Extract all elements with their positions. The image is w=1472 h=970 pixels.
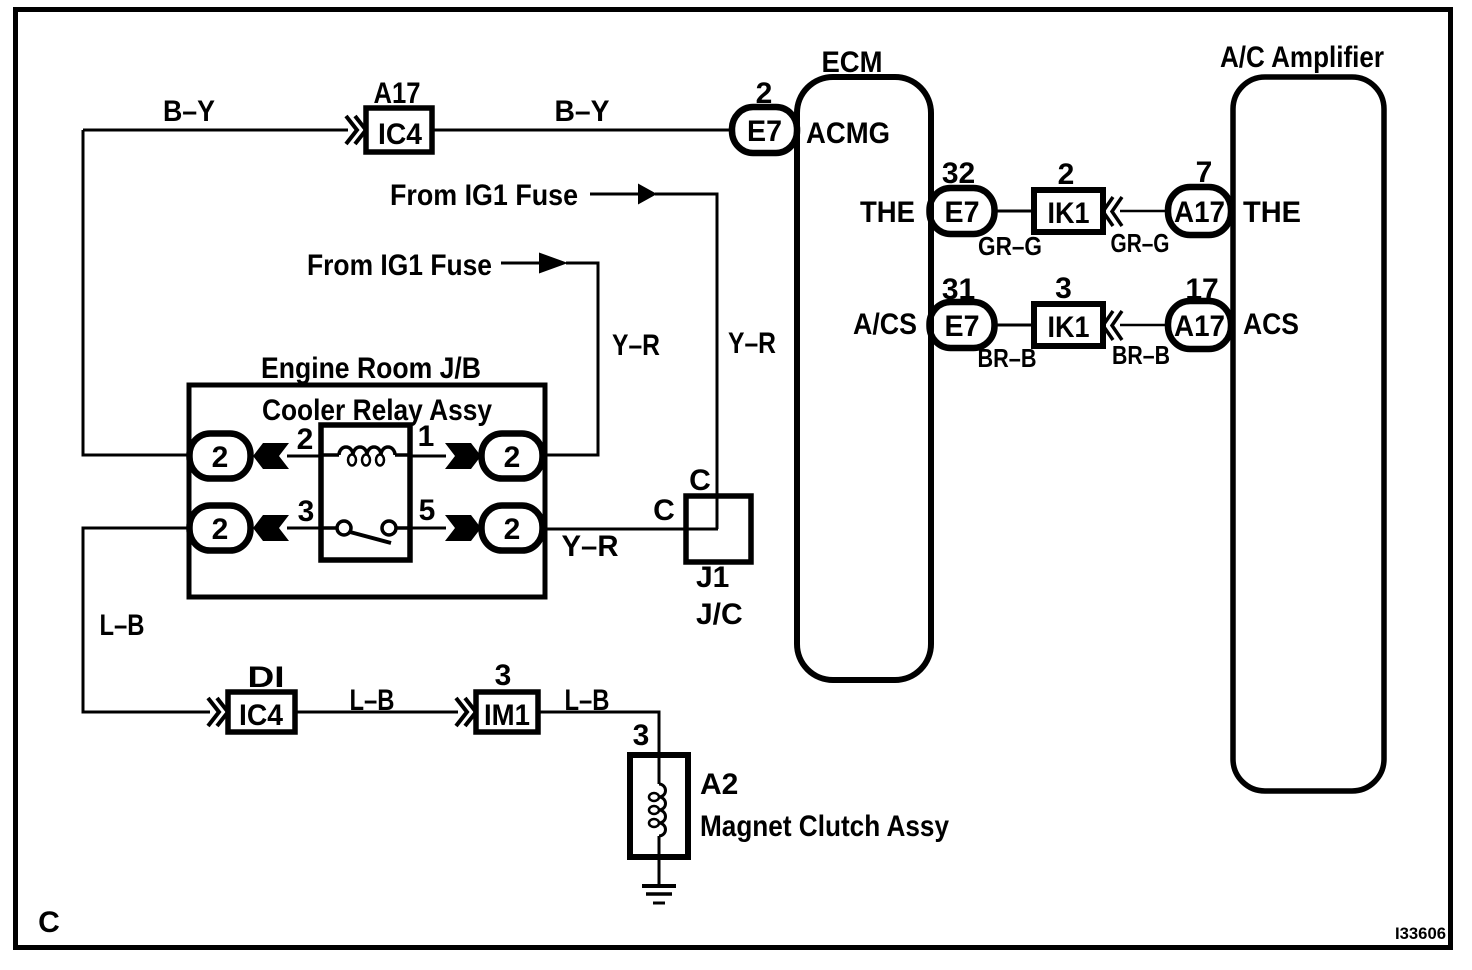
svg-text:Y–R: Y–R [562,530,619,563]
svg-text:From IG1 Fuse: From IG1 Fuse [390,179,578,212]
svg-text:IK1: IK1 [1048,197,1090,230]
relay switch [321,526,410,530]
svg-text:THE: THE [1243,196,1301,229]
arrow left row1 [253,443,289,469]
arrow left row2 [253,515,289,541]
svg-text:32: 32 [942,157,975,190]
svg-text:2: 2 [756,77,773,110]
wire from IG1 fuse upper [590,193,639,196]
junction block J1 [686,496,751,562]
chevrons after IK1 row2 [1103,311,1122,340]
oval terminal 2 bottom-left [190,506,251,551]
arrow right row2 [410,527,446,530]
wire to A17 row1 [1120,210,1167,213]
svg-text:E7: E7 [945,310,980,343]
ECM pin 32 oval E7 [930,188,995,234]
svg-text:2: 2 [212,441,229,474]
svg-text:A/CS: A/CS [853,308,917,341]
oval terminal 2 top-right [482,434,543,479]
svg-text:I33606: I33606 [1395,924,1446,943]
svg-text:3: 3 [633,719,650,752]
svg-text:A2: A2 [700,768,738,801]
svg-text:IM1: IM1 [484,699,530,732]
wire L-B middle [295,711,458,714]
connector chevrons into IC4 (DI) [208,698,228,726]
svg-text:A17: A17 [1174,196,1225,229]
clutch coil [659,755,666,857]
svg-text:Y–R: Y–R [728,327,776,360]
svg-text:A17: A17 [1174,310,1225,343]
svg-text:IC4: IC4 [378,118,422,151]
wire from IG1 fuse lower [501,262,540,265]
relay assy box [189,385,545,597]
amp pin 7 oval A17 [1168,187,1231,235]
A/C Amplifier box [1233,77,1384,791]
svg-text:A/C Amplifier: A/C Amplifier [1220,41,1384,74]
junction IM1 [476,692,538,732]
svg-text:THE: THE [860,196,915,229]
svg-text:IK1: IK1 [1048,311,1090,344]
wire relay pin3 to L-B vertical [83,528,210,712]
svg-text:ACMG: ACMG [806,117,890,150]
wire E7 to IK1 row1 [994,210,1034,213]
wire B-Y right segment [432,129,732,132]
svg-text:7: 7 [1196,156,1213,189]
svg-text:5: 5 [419,494,436,527]
oval terminal 2 top-left [190,434,251,479]
svg-text:1: 1 [418,420,435,453]
svg-text:C: C [689,464,711,497]
connector chevrons into IM1 [456,698,476,726]
amp pin 17 oval A17 [1168,301,1231,349]
svg-text:Engine Room J/B: Engine Room J/B [261,352,481,385]
chevrons after IK1 row1 [1103,197,1122,226]
svg-text:E7: E7 [945,196,980,229]
ground [658,857,661,886]
svg-text:L–B: L–B [565,684,610,717]
svg-text:B–Y: B–Y [555,95,610,128]
svg-text:GR–G: GR–G [1111,228,1170,258]
svg-text:Magnet Clutch Assy: Magnet Clutch Assy [700,810,949,843]
relay inner box [321,425,410,560]
svg-text:DI: DI [248,661,285,694]
svg-text:3: 3 [495,659,512,692]
wire B-Y left segment [83,129,348,132]
ECM pin 31 oval E7 [930,302,995,348]
svg-text:J/C: J/C [696,598,743,631]
svg-text:31: 31 [942,273,975,306]
magnet clutch box A2 [630,755,688,857]
svg-text:BR–B: BR–B [1112,340,1170,370]
junction IC4 (A17) [366,108,432,152]
svg-text:ECM: ECM [822,46,883,79]
arrowhead [638,184,657,205]
svg-text:L–B: L–B [100,609,145,642]
svg-text:2: 2 [297,423,314,456]
wire to A17 row2 [1120,324,1167,327]
svg-text:BR–B: BR–B [978,343,1037,373]
connector chevrons into IC4 [346,116,366,144]
relay coil [321,447,410,455]
svg-text:ACS: ACS [1243,308,1299,341]
oval terminal 2 bottom-right [482,506,543,551]
junction IC4 (DI) [228,692,295,732]
junction IK1 row1 [1034,190,1103,232]
wire E7 to IK1 row2 [994,324,1034,327]
wire down to relay pin 1 [543,263,598,455]
svg-text:A17: A17 [374,77,421,110]
wire left vertical to relay coil [83,130,190,455]
svg-text:B–Y: B–Y [163,95,215,128]
svg-text:2: 2 [1058,158,1075,191]
svg-text:From IG1 Fuse: From IG1 Fuse [307,249,492,282]
svg-text:3: 3 [298,495,315,528]
svg-text:Y–R: Y–R [612,329,660,362]
svg-text:L–B: L–B [350,684,395,717]
wire relay pin5 to J1 [543,528,718,531]
wire L-B right [538,712,659,755]
svg-text:J1: J1 [696,561,729,594]
svg-text:17: 17 [1185,273,1218,306]
arrow right row1 [410,455,446,458]
svg-text:2: 2 [504,441,521,474]
arrowhead [539,253,568,274]
ECM box [797,77,931,680]
junction IK1 row2 [1034,304,1103,346]
svg-text:3: 3 [1055,272,1072,305]
svg-text:IC4: IC4 [239,699,283,732]
svg-text:GR–G: GR–G [978,231,1042,261]
ECM pin 2 oval E7 (ACMG) [732,107,797,153]
wire to J1 vertical [655,194,717,529]
svg-text:2: 2 [212,513,229,546]
svg-text:C: C [38,906,60,939]
svg-text:C: C [653,494,675,527]
svg-text:E7: E7 [747,115,782,148]
svg-text:2: 2 [504,513,521,546]
